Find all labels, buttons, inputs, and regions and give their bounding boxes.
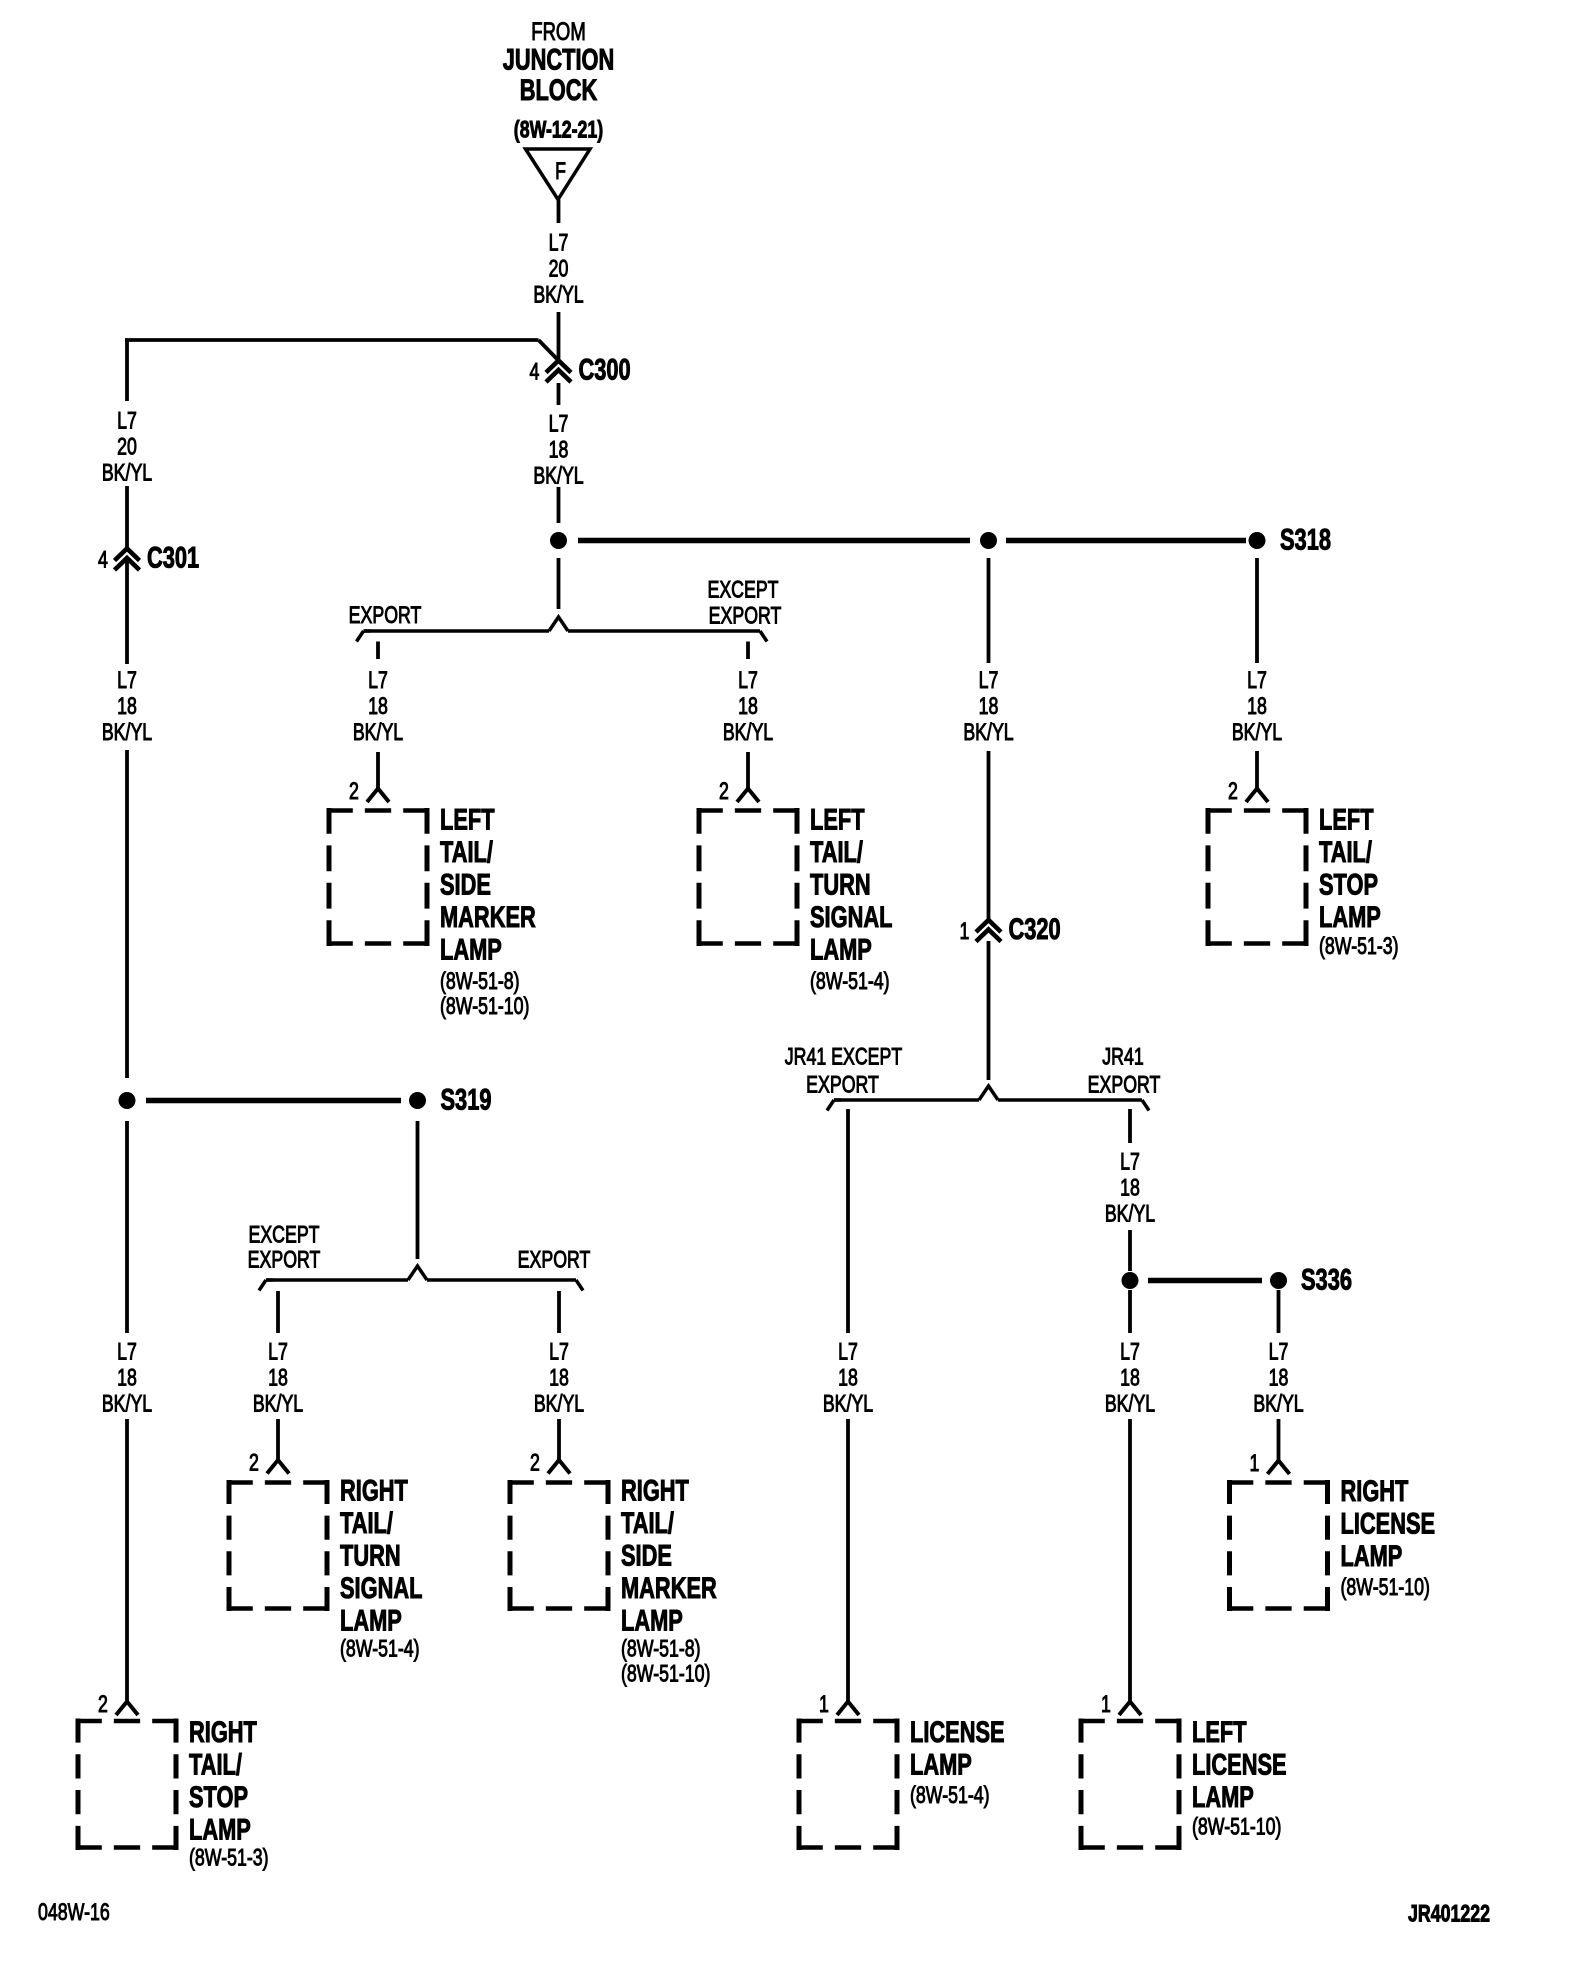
- svg-text:4: 4: [98, 547, 108, 573]
- svg-text:S319: S319: [441, 1085, 492, 1117]
- svg-text:FROM: FROM: [531, 17, 585, 45]
- svg-text:BK/YL: BK/YL: [1253, 1391, 1304, 1417]
- svg-text:LAMP: LAMP: [810, 935, 872, 967]
- svg-text:BLOCK: BLOCK: [520, 75, 598, 107]
- svg-text:(8W-51-4): (8W-51-4): [810, 968, 890, 994]
- svg-text:EXPORT: EXPORT: [1088, 1072, 1161, 1098]
- svg-text:BK/YL: BK/YL: [963, 719, 1014, 745]
- svg-text:18: 18: [979, 693, 999, 719]
- svg-text:18: 18: [368, 693, 388, 719]
- svg-text:L7: L7: [368, 667, 388, 693]
- svg-text:BK/YL: BK/YL: [253, 1391, 304, 1417]
- svg-text:TAIL/: TAIL/: [810, 837, 863, 869]
- svg-text:S318: S318: [1280, 525, 1331, 557]
- svg-text:RIGHT: RIGHT: [621, 1476, 689, 1508]
- svg-text:LAMP: LAMP: [340, 1606, 402, 1638]
- svg-text:18: 18: [738, 693, 758, 719]
- svg-text:LAMP: LAMP: [440, 935, 502, 967]
- svg-text:RIGHT: RIGHT: [189, 1717, 257, 1749]
- svg-text:2: 2: [719, 778, 729, 804]
- svg-text:(8W-51-10): (8W-51-10): [1341, 1574, 1430, 1600]
- svg-text:048W-16: 048W-16: [38, 1899, 110, 1925]
- svg-text:C300: C300: [579, 355, 631, 387]
- svg-text:LEFT: LEFT: [810, 805, 865, 837]
- svg-text:SIDE: SIDE: [440, 870, 491, 902]
- svg-text:BK/YL: BK/YL: [1105, 1391, 1156, 1417]
- svg-text:(8W-51-10): (8W-51-10): [621, 1661, 710, 1687]
- svg-text:MARKER: MARKER: [440, 902, 536, 934]
- svg-text:EXPORT: EXPORT: [806, 1072, 879, 1098]
- svg-text:EXCEPT: EXCEPT: [707, 577, 778, 603]
- svg-text:1: 1: [1101, 1691, 1111, 1717]
- svg-text:LAMP: LAMP: [1341, 1541, 1403, 1573]
- svg-text:LICENSE: LICENSE: [1192, 1750, 1287, 1782]
- svg-text:(8W-51-8): (8W-51-8): [440, 968, 520, 994]
- svg-text:(8W-51-10): (8W-51-10): [1192, 1814, 1281, 1840]
- svg-text:JUNCTION: JUNCTION: [503, 45, 615, 77]
- svg-text:L7: L7: [979, 667, 999, 693]
- svg-text:18: 18: [838, 1365, 858, 1391]
- svg-text:LAMP: LAMP: [1319, 902, 1381, 934]
- svg-text:SIDE: SIDE: [621, 1541, 672, 1573]
- svg-text:TAIL/: TAIL/: [440, 837, 493, 869]
- svg-text:(8W-51-3): (8W-51-3): [1319, 933, 1399, 959]
- svg-text:L7: L7: [1120, 1339, 1140, 1365]
- svg-text:(8W-51-4): (8W-51-4): [910, 1782, 990, 1808]
- svg-text:LEFT: LEFT: [1192, 1717, 1247, 1749]
- svg-text:C320: C320: [1009, 914, 1061, 946]
- svg-text:18: 18: [117, 693, 137, 719]
- svg-text:L7: L7: [117, 667, 137, 693]
- svg-text:MARKER: MARKER: [621, 1573, 717, 1605]
- svg-text:20: 20: [549, 256, 569, 282]
- svg-text:(8W-51-3): (8W-51-3): [189, 1845, 269, 1871]
- svg-text:L7: L7: [549, 1339, 569, 1365]
- svg-text:TAIL/: TAIL/: [340, 1508, 393, 1540]
- svg-text:SIGNAL: SIGNAL: [340, 1573, 423, 1605]
- svg-text:18: 18: [549, 437, 569, 463]
- svg-text:TAIL/: TAIL/: [189, 1750, 242, 1782]
- svg-text:1: 1: [960, 918, 970, 944]
- svg-text:BK/YL: BK/YL: [1105, 1201, 1156, 1227]
- svg-text:STOP: STOP: [1319, 870, 1378, 902]
- svg-text:LAMP: LAMP: [189, 1815, 251, 1847]
- svg-text:SIGNAL: SIGNAL: [810, 902, 893, 934]
- svg-text:STOP: STOP: [189, 1782, 248, 1814]
- svg-text:TURN: TURN: [810, 870, 871, 902]
- svg-text:18: 18: [1120, 1365, 1140, 1391]
- svg-text:2: 2: [530, 1450, 540, 1476]
- svg-text:JR41 EXCEPT: JR41 EXCEPT: [785, 1044, 903, 1070]
- svg-text:BK/YL: BK/YL: [102, 1391, 153, 1417]
- svg-text:BK/YL: BK/YL: [102, 719, 153, 745]
- svg-text:S336: S336: [1301, 1265, 1352, 1297]
- svg-text:LAMP: LAMP: [910, 1750, 972, 1782]
- svg-text:TAIL/: TAIL/: [621, 1508, 674, 1540]
- svg-text:(8W-51-8): (8W-51-8): [621, 1636, 701, 1662]
- svg-text:(8W-51-10): (8W-51-10): [440, 993, 529, 1019]
- svg-text:BK/YL: BK/YL: [533, 463, 584, 489]
- svg-text:L7: L7: [1269, 1339, 1289, 1365]
- svg-text:L7: L7: [549, 411, 569, 437]
- svg-text:L7: L7: [117, 1339, 137, 1365]
- svg-text:18: 18: [1120, 1175, 1140, 1201]
- svg-text:2: 2: [349, 778, 359, 804]
- svg-text:EXPORT: EXPORT: [518, 1247, 591, 1273]
- svg-text:18: 18: [549, 1365, 569, 1391]
- svg-text:BK/YL: BK/YL: [102, 460, 153, 486]
- svg-text:BK/YL: BK/YL: [353, 719, 404, 745]
- svg-text:(8W-51-4): (8W-51-4): [340, 1636, 420, 1662]
- svg-text:BK/YL: BK/YL: [1232, 719, 1283, 745]
- svg-text:TURN: TURN: [340, 1541, 401, 1573]
- svg-text:L7: L7: [738, 667, 758, 693]
- svg-text:4: 4: [530, 359, 540, 385]
- svg-text:18: 18: [1247, 693, 1267, 719]
- svg-text:BK/YL: BK/YL: [533, 282, 584, 308]
- svg-text:RIGHT: RIGHT: [340, 1476, 408, 1508]
- svg-text:EXCEPT: EXCEPT: [248, 1222, 319, 1248]
- svg-text:18: 18: [268, 1365, 288, 1391]
- svg-text:L7: L7: [838, 1339, 858, 1365]
- svg-text:L7: L7: [1120, 1149, 1140, 1175]
- svg-text:RIGHT: RIGHT: [1341, 1476, 1409, 1508]
- svg-text:2: 2: [1228, 778, 1238, 804]
- svg-text:LEFT: LEFT: [1319, 805, 1374, 837]
- svg-text:(8W-12-21): (8W-12-21): [514, 117, 603, 143]
- svg-text:L7: L7: [549, 230, 569, 256]
- svg-text:LAMP: LAMP: [621, 1606, 683, 1638]
- svg-text:LICENSE: LICENSE: [910, 1717, 1005, 1749]
- svg-text:2: 2: [98, 1691, 108, 1717]
- svg-text:18: 18: [1269, 1365, 1289, 1391]
- svg-text:L7: L7: [117, 408, 137, 434]
- svg-text:JR41: JR41: [1102, 1044, 1143, 1070]
- svg-text:JR401222: JR401222: [1408, 1901, 1490, 1927]
- svg-text:EXPORT: EXPORT: [349, 602, 422, 628]
- svg-text:20: 20: [117, 434, 137, 460]
- svg-text:2: 2: [249, 1450, 259, 1476]
- svg-text:EXPORT: EXPORT: [709, 603, 782, 629]
- svg-text:L7: L7: [268, 1339, 288, 1365]
- svg-text:1: 1: [1250, 1450, 1260, 1476]
- svg-text:BK/YL: BK/YL: [723, 719, 774, 745]
- svg-text:BK/YL: BK/YL: [534, 1391, 585, 1417]
- svg-text:C301: C301: [147, 543, 199, 575]
- svg-text:LAMP: LAMP: [1192, 1782, 1254, 1814]
- svg-text:LEFT: LEFT: [440, 805, 495, 837]
- svg-text:L7: L7: [1247, 667, 1267, 693]
- svg-text:F: F: [555, 158, 566, 184]
- svg-text:TAIL/: TAIL/: [1319, 837, 1372, 869]
- svg-text:1: 1: [819, 1691, 829, 1717]
- svg-text:LICENSE: LICENSE: [1341, 1509, 1436, 1541]
- svg-text:BK/YL: BK/YL: [823, 1391, 874, 1417]
- svg-text:18: 18: [117, 1365, 137, 1391]
- svg-text:EXPORT: EXPORT: [248, 1247, 321, 1273]
